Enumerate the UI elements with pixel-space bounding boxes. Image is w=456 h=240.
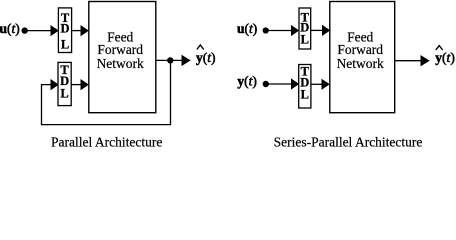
arrowhead to output label (right) (421, 55, 430, 66)
svg-text:Parallel Architecture: Parallel Architecture (51, 135, 162, 150)
svg-text:Forward: Forward (97, 42, 143, 57)
arrowhead TDL1 to network (81, 25, 89, 36)
wire: network output (156, 59, 183, 61)
svg-text:L: L (301, 88, 309, 102)
svg-text:L: L (60, 86, 68, 100)
TDL1 box (delay line for u) (58, 8, 71, 53)
wire: u(t) node to TDL1 (right) (266, 30, 292, 32)
wire: TDL1 to network (72, 30, 82, 32)
hat over output y (right) (436, 46, 443, 50)
node: u(t) input junction (right) (263, 27, 269, 33)
svg-text:Network: Network (97, 56, 144, 71)
arrowhead into TDL2 (51, 79, 59, 90)
wire: u(t) node to TDL1 (25, 30, 52, 32)
wire: TDL2 to network (right) (311, 83, 323, 85)
arrowhead to output label (182, 55, 191, 66)
node: y(t) input junction (right) (263, 81, 269, 87)
wire: y(t) node to TDL2 (right) (266, 83, 292, 85)
feed forward network box (right) (330, 2, 395, 113)
svg-text:y(t): y(t) (237, 74, 257, 89)
svg-text:y(t): y(t) (196, 50, 216, 65)
svg-text:L: L (301, 33, 309, 47)
svg-text:u(t): u(t) (0, 21, 20, 36)
arrowhead into TDL2 (right) (291, 78, 299, 89)
wire: network output (right) (395, 60, 422, 62)
svg-text:Series-Parallel Architecture: Series-Parallel Architecture (274, 135, 423, 150)
arrowhead into TDL1 (51, 25, 59, 36)
TDL1 box (right, delay line for u) (299, 8, 311, 49)
wire: TDL1 to network (right) (311, 29, 323, 31)
feed forward network box (left) (89, 2, 156, 113)
wire: feedback from output node down, left and up to TDL2 (42, 60, 171, 124)
hat over output y (197, 45, 204, 49)
arrowhead TDL2 to network (right) (322, 79, 330, 90)
TDL2 box (right, delay line for y) (299, 65, 311, 109)
svg-text:Network: Network (337, 56, 384, 71)
node: u(t) input junction (22, 27, 28, 33)
wire: TDL2 to network (71, 84, 81, 86)
svg-text:y(t): y(t) (435, 50, 455, 65)
node: output junction (167, 57, 173, 63)
arrowhead TDL2 to network (81, 79, 89, 90)
svg-text:D: D (60, 21, 69, 35)
svg-text:u(t): u(t) (237, 21, 257, 36)
svg-text:Forward: Forward (337, 42, 383, 57)
arrowhead TDL1 to network (right) (322, 25, 330, 36)
arrowhead into TDL1 (right) (291, 25, 299, 36)
TDL2 box (delay line for feedback) (58, 62, 71, 105)
svg-text:L: L (61, 38, 69, 52)
